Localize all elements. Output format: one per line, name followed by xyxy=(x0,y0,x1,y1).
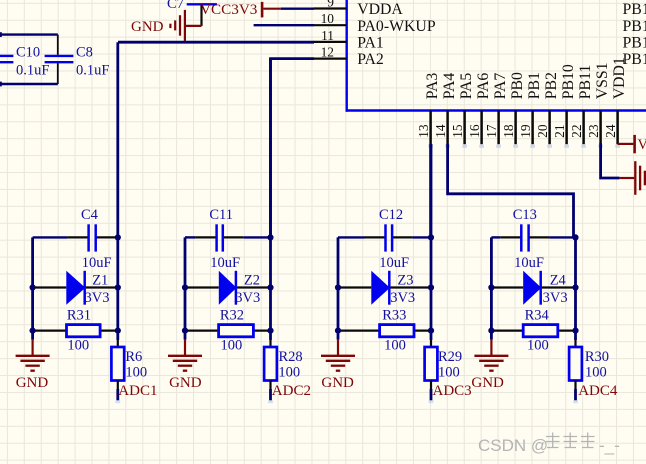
svg-text:-_-: -_- xyxy=(599,436,620,455)
zener diode Z2 3V3 xyxy=(185,286,219,288)
wire to pin 11 (node to cell 1) xyxy=(118,41,314,44)
svg-text:ADC4: ADC4 xyxy=(578,383,618,399)
node cell 4 right rail xyxy=(574,237,577,330)
resistor R34 100 xyxy=(491,330,523,332)
svg-text:PB10: PB10 xyxy=(560,64,577,99)
wire C10/C8 bottom rail xyxy=(0,83,58,85)
svg-text:Z4: Z4 xyxy=(550,273,567,289)
svg-text:PB1: PB1 xyxy=(526,72,543,99)
resistor R33 100 xyxy=(338,330,380,332)
svg-text:3V3: 3V3 xyxy=(85,290,110,306)
svg-text:10uF: 10uF xyxy=(210,255,240,271)
svg-text:100: 100 xyxy=(278,365,300,381)
svg-text:VDD1: VDD1 xyxy=(611,57,628,99)
ground GND cell 1 xyxy=(31,331,34,340)
svg-text:VCC3V3: VCC3V3 xyxy=(638,137,646,153)
svg-text:PA6: PA6 xyxy=(475,73,492,100)
svg-text:PA2: PA2 xyxy=(357,51,384,68)
svg-text:10uF: 10uF xyxy=(379,255,409,271)
svg-text:R6: R6 xyxy=(125,349,142,365)
resistor R32 100 xyxy=(185,330,219,332)
pin 14 (PA4) xyxy=(446,111,449,145)
svg-text:ADC2: ADC2 xyxy=(272,383,311,399)
svg-text:GND: GND xyxy=(321,375,354,391)
svg-text:R34: R34 xyxy=(525,308,550,324)
svg-text:PB14: PB14 xyxy=(623,35,646,52)
junction dots cell 4 xyxy=(572,234,578,240)
svg-text:C12: C12 xyxy=(379,207,403,223)
svg-text:12: 12 xyxy=(321,45,334,60)
svg-text:PB13: PB13 xyxy=(623,18,646,35)
svg-text:11: 11 xyxy=(321,28,334,43)
node cell 3 left rail xyxy=(337,237,340,330)
node cell 1 left rail xyxy=(31,237,34,330)
resistor R28 100 (series to ADC2) xyxy=(269,331,272,340)
zener diode Z4 3V3 xyxy=(491,286,523,288)
svg-text:13: 13 xyxy=(416,124,431,138)
IC U1 bottom border xyxy=(346,109,646,112)
ground GND (sideways, for VSS1) xyxy=(619,177,634,179)
svg-text:100: 100 xyxy=(384,338,406,354)
svg-text:PA4: PA4 xyxy=(441,73,458,100)
svg-text:VSS1: VSS1 xyxy=(594,62,611,99)
svg-text:PB2: PB2 xyxy=(543,72,560,99)
resistor R6 100 (series to ADC1) xyxy=(116,331,119,340)
wire VCC3V3 to pin 9 xyxy=(281,7,314,9)
node cell 1 right rail xyxy=(116,42,119,330)
svg-text:0.1uF: 0.1uF xyxy=(16,63,49,79)
pin 12 (PA2) xyxy=(314,57,347,59)
svg-text:PB12: PB12 xyxy=(623,1,646,18)
svg-text:R30: R30 xyxy=(585,349,609,365)
svg-text:Z1: Z1 xyxy=(92,273,108,289)
capacitor C12 10uF xyxy=(338,236,365,238)
pin 19 (PB1) xyxy=(531,111,534,145)
svg-text:VCC3V3: VCC3V3 xyxy=(200,1,257,18)
pin 13 (PA3) xyxy=(429,111,432,145)
svg-text:100: 100 xyxy=(438,365,460,381)
zener diode Z3 3V3 xyxy=(338,286,371,288)
svg-text:17: 17 xyxy=(484,124,499,138)
svg-text:R31: R31 xyxy=(67,308,91,324)
svg-text:3V3: 3V3 xyxy=(235,290,260,306)
resistor R29 100 (series to ADC3) xyxy=(430,331,433,340)
svg-text:GND: GND xyxy=(471,375,504,391)
wire pin 13 to cell 3 xyxy=(429,144,432,237)
svg-text:0.1uF: 0.1uF xyxy=(76,63,109,79)
svg-text:3V3: 3V3 xyxy=(390,290,415,306)
svg-text:R28: R28 xyxy=(279,349,303,365)
svg-text:PA7: PA7 xyxy=(492,73,509,100)
junction dots cell 3 xyxy=(428,234,434,240)
svg-text:C4: C4 xyxy=(81,207,99,223)
svg-text:10uF: 10uF xyxy=(514,255,544,271)
svg-text:10: 10 xyxy=(321,11,335,26)
ground GND cell 3 xyxy=(337,331,340,340)
svg-text:GND: GND xyxy=(16,375,49,391)
ground GND cell 4 xyxy=(490,331,493,340)
svg-text:C10: C10 xyxy=(16,45,40,61)
svg-text:100: 100 xyxy=(585,365,607,381)
svg-text:Z2: Z2 xyxy=(244,273,260,289)
pin 18 (PB0) xyxy=(514,111,517,145)
pin 16 (PA6) xyxy=(480,111,483,145)
capacitor C4 10uF xyxy=(33,236,68,238)
svg-text:24: 24 xyxy=(603,124,618,138)
svg-text:CSDN @: CSDN @ xyxy=(478,436,548,455)
svg-text:R33: R33 xyxy=(382,308,406,324)
pin 20 (PB2) xyxy=(548,111,551,145)
svg-text:PB11: PB11 xyxy=(577,65,594,100)
svg-text:100: 100 xyxy=(125,365,147,381)
pin 24 (VDD1) xyxy=(616,111,619,145)
wire to pin 10 xyxy=(254,24,314,26)
capacitor C13 10uF xyxy=(491,236,500,238)
power port VCC3V3 (for VDD1) xyxy=(618,143,634,145)
pin 10 (PA0-WKUP) xyxy=(314,24,347,26)
wire pin 23 (VSS1) to ground xyxy=(601,143,620,178)
svg-text:19: 19 xyxy=(518,124,533,138)
capacitor C10 xyxy=(0,55,13,57)
capacitor C11 10uF xyxy=(185,236,196,238)
svg-text:PA0-WKUP: PA0-WKUP xyxy=(357,18,436,35)
svg-text:GND: GND xyxy=(169,375,202,391)
svg-text:PA5: PA5 xyxy=(458,73,475,100)
svg-text:100: 100 xyxy=(67,338,89,354)
ground GND (sideways, for C7) xyxy=(185,25,201,27)
svg-text:20: 20 xyxy=(535,124,550,138)
svg-text:23: 23 xyxy=(586,124,601,138)
svg-text:10uF: 10uF xyxy=(82,255,112,271)
wire to pin 12 (node to cell 2) xyxy=(271,59,315,238)
pin 21 (PB10) xyxy=(565,111,568,145)
svg-text:C8: C8 xyxy=(76,45,93,61)
svg-text:VDDA: VDDA xyxy=(357,1,403,18)
svg-text:100: 100 xyxy=(527,338,549,354)
svg-text:18: 18 xyxy=(501,124,516,138)
pin 15 (PA5) xyxy=(463,111,466,145)
node cell 2 right rail xyxy=(269,59,272,331)
svg-text:C11: C11 xyxy=(209,207,233,223)
svg-text:ADC3: ADC3 xyxy=(433,383,472,399)
resistor R30 100 (series to ADC4) xyxy=(574,331,577,340)
svg-text:16: 16 xyxy=(467,124,482,138)
wire pin 14 to cell 4 xyxy=(448,144,574,237)
svg-text:14: 14 xyxy=(433,124,448,138)
capacitor C8 xyxy=(57,35,59,55)
zener diode Z1 3V3 xyxy=(33,286,67,288)
svg-text:22: 22 xyxy=(569,124,584,137)
svg-text:C7: C7 xyxy=(167,0,184,12)
svg-text:R32: R32 xyxy=(220,308,244,324)
wire C10/C8 top rail xyxy=(0,33,58,35)
pin 22 (PB11) xyxy=(582,111,585,145)
svg-text:3V3: 3V3 xyxy=(543,290,568,306)
pin 9 (VDDA) xyxy=(314,7,347,9)
svg-text:PB0: PB0 xyxy=(509,72,526,99)
junction dots cell 1 xyxy=(115,234,121,240)
svg-text:9: 9 xyxy=(327,0,334,10)
svg-text:100: 100 xyxy=(221,338,243,354)
svg-text:R29: R29 xyxy=(438,349,462,365)
junction dots cell 2 xyxy=(267,234,273,240)
pin 23 (VSS1) xyxy=(599,111,602,145)
svg-text:ADC1: ADC1 xyxy=(118,383,157,399)
svg-text:PA1: PA1 xyxy=(357,35,384,52)
op IC U1 left border xyxy=(346,0,348,112)
node cell 2 left rail xyxy=(184,237,187,330)
svg-text:Z3: Z3 xyxy=(397,273,413,289)
svg-text:C13: C13 xyxy=(513,207,537,223)
ground GND cell 2 xyxy=(184,331,187,340)
svg-text:15: 15 xyxy=(450,124,465,138)
svg-text:PA3: PA3 xyxy=(424,73,441,100)
svg-text:GND: GND xyxy=(131,19,164,35)
node cell 3 right rail xyxy=(430,144,433,331)
pin 17 (PA7) xyxy=(497,111,500,145)
node cell 4 left rail xyxy=(490,237,493,330)
pin 11 (PA1) xyxy=(314,41,347,43)
resistor R31 100 xyxy=(33,330,67,332)
svg-text:21: 21 xyxy=(552,124,567,137)
